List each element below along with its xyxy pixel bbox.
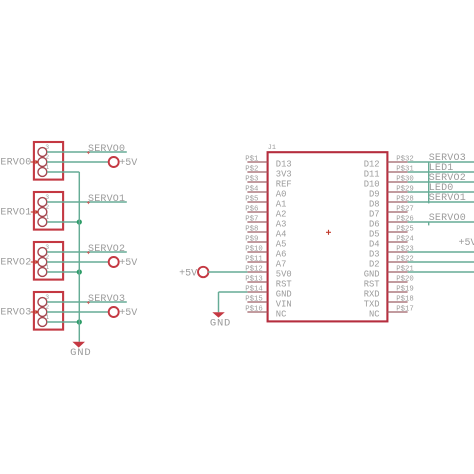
svg-text:A5: A5 [276,239,287,249]
ground symbol GND (at J1) [210,312,231,329]
svg-text:J1: J1 [268,144,276,152]
wire: short vertical segment crossing right-side nets [428,162,430,204]
wire net SERVO3 from connector pin 3 [47,301,127,303]
svg-text:P$9: P$9 [245,235,258,243]
svg-text:+5V: +5V [179,268,197,279]
svg-text:SERVO0: SERVO0 [88,144,125,155]
wire from SERVO2 pin 1 to GND bus [47,271,79,273]
svg-text:2: 2 [45,254,49,261]
wire GND to J1 pin P$14: horizontal [219,291,248,293]
svg-text:D3: D3 [369,249,380,259]
connector SERVO1 (3-pin header) [0,192,63,230]
pin P$2 (3V3) of J1, left side [245,165,291,179]
pin P$6 (A2) of J1, left side [245,205,286,219]
svg-text:+5V: +5V [119,158,137,169]
net label SERVO2 [87,244,125,255]
svg-text:A0: A0 [276,189,287,199]
pin P$24 (D4) of J1, right side [369,235,414,249]
svg-text:2: 2 [45,154,49,161]
pin P$7 (A3) of J1, left side [245,215,286,229]
svg-text:+5V: +5V [459,238,474,249]
svg-text:GND: GND [364,269,380,279]
svg-text:P$6: P$6 [245,205,258,213]
wire: small tick below SERVO0 label [428,222,430,226]
pin P$28 (D8) of J1, right side [369,195,414,209]
svg-text:RXD: RXD [364,289,380,299]
svg-text:2: 2 [45,304,49,311]
pin P$20 (RST) of J1, right side [364,275,414,289]
pin P$27 (D7) of J1, right side [369,205,414,219]
svg-text:D8: D8 [369,199,380,209]
svg-text:VIN: VIN [276,299,292,309]
pin P$18 (TXD) of J1, right side [364,295,414,309]
svg-text:SERVO0: SERVO0 [429,213,466,224]
wire from SERVO0 pin 2 to +5V [47,161,109,163]
svg-text:D10: D10 [364,179,380,189]
ground symbol GND (connector bus) [70,342,91,359]
wire net SERVO0 from connector pin 3 [47,151,127,153]
pin P$23 (D3) of J1, right side [369,245,414,259]
wire net SERVO1 from J1 right side row y=202 [408,201,474,203]
svg-text:D11: D11 [364,169,380,179]
svg-text:P$17: P$17 [396,305,414,313]
IC J1 body [268,152,388,321]
svg-text:P$13: P$13 [245,275,263,283]
svg-text:P$18: P$18 [396,295,414,303]
+5V supply symbol at SERVO2 [109,257,138,269]
svg-text:NC: NC [276,309,287,319]
svg-text:SERVO1: SERVO1 [429,193,466,204]
svg-text:SERVO3: SERVO3 [88,294,125,305]
wire net unnamed from J1 right side row y=272 [408,271,474,273]
svg-text:P$25: P$25 [396,225,414,233]
svg-text:1: 1 [45,264,49,271]
svg-text:P$12: P$12 [245,265,263,273]
svg-text:5V0: 5V0 [276,269,292,279]
wire net LED1 from J1 right side row y=172 [408,171,474,173]
wire from SERVO2 pin 2 to +5V [47,261,109,263]
svg-text:RST: RST [364,279,380,289]
pin P$5 (A1) of J1, left side [245,195,286,209]
junction on GND bus at SERVO3 pin 1 [77,319,82,324]
svg-text:P$11: P$11 [245,255,263,263]
svg-text:D9: D9 [369,189,380,199]
svg-text:P$7: P$7 [245,215,258,223]
pin P$9 (A5) of J1, left side [245,235,286,249]
pin P$14 (GND) of J1, left side [245,285,291,299]
svg-text:SERVO2: SERVO2 [0,258,31,269]
wire +5V to J1 pin P$12 (5V0) [208,271,247,273]
svg-text:TXD: TXD [364,299,380,309]
wire GND to J1 pin P$14: vertical drop [218,292,220,312]
svg-text:+5V: +5V [119,308,137,319]
junction on GND bus at SERVO2 pin 1 [77,269,82,274]
svg-text:3V3: 3V3 [276,169,292,179]
svg-text:D5: D5 [369,229,380,239]
wire net SERVO2 from connector pin 3 [47,251,127,253]
svg-text:P$2: P$2 [245,165,258,173]
svg-text:A3: A3 [276,219,287,229]
svg-text:1: 1 [45,164,49,171]
wire from SERVO0 pin 1 to GND bus [47,171,79,173]
connector SERVO0 (3-pin header) [0,142,63,180]
svg-text:D13: D13 [276,159,292,169]
svg-text:A4: A4 [276,229,287,239]
svg-text:RST: RST [276,279,292,289]
svg-text:P$3: P$3 [245,175,258,183]
pin P$26 (D6) of J1, right side [369,215,414,229]
connector SERVO2 (3-pin header) [0,242,63,280]
svg-text:P$5: P$5 [245,195,258,203]
wire net SERVO2 from J1 right side row y=182 [408,181,474,183]
svg-text:REF: REF [276,179,292,189]
svg-text:D6: D6 [369,219,380,229]
+5V supply symbol at J1 pin P$12 [179,267,208,280]
svg-text:D12: D12 [364,159,380,169]
pin P$19 (RXD) of J1, right side [364,285,414,299]
svg-text:D7: D7 [369,209,380,219]
svg-text:GND: GND [276,289,292,299]
svg-text:P$10: P$10 [245,245,263,253]
pin P$16 (NC) of J1, left side [245,305,286,319]
wire net LED0 from J1 right side row y=192 [408,191,474,193]
svg-text:3: 3 [45,194,49,201]
svg-text:SERVO3: SERVO3 [0,308,31,319]
svg-text:GND: GND [210,318,231,330]
svg-text:P$8: P$8 [245,225,258,233]
pin P$15 (VIN) of J1, left side [245,295,291,309]
pin P$11 (A7) of J1, left side [245,255,286,269]
pin P$1 (D13) of J1, left side [245,155,291,169]
origin arrow of connector SERVO2 [31,260,39,264]
svg-text:NC: NC [369,309,380,319]
wire from SERVO1 pin 1 to GND bus [47,221,79,223]
svg-text:A2: A2 [276,209,287,219]
svg-text:1: 1 [45,214,49,221]
net label SERVO1 [87,194,125,205]
wire: vertical GND bus for connectors [78,172,80,342]
pin P$4 (A0) of J1, left side [245,185,286,199]
wire net SERVO3 from J1 right side row y=162 [408,161,474,163]
svg-text:D4: D4 [369,239,380,249]
svg-text:A6: A6 [276,249,287,259]
svg-text:P$15: P$15 [245,295,263,303]
svg-text:D2: D2 [369,259,380,269]
pin P$10 (A6) of J1, left side [245,245,286,259]
+5V supply symbol at SERVO3 [109,307,138,319]
origin arrow of connector SERVO1 [31,210,39,214]
svg-text:+5V: +5V [119,258,137,269]
net label SERVO0 [87,144,125,155]
svg-text:P$4: P$4 [245,185,259,193]
pin P$31 (D11) of J1, right side [364,165,415,179]
svg-text:3: 3 [45,294,49,301]
wire net unnamed from J1 right side row y=262 [408,261,474,263]
net label SERVO3 [87,294,125,305]
+5V supply symbol at SERVO0 [109,157,138,169]
svg-text:P$1: P$1 [245,155,259,163]
pin P$30 (D10) of J1, right side [364,175,414,189]
svg-text:GND: GND [70,347,91,359]
svg-text:SERVO0: SERVO0 [0,158,31,169]
origin arrow of connector SERVO3 [31,310,39,314]
svg-text:3: 3 [45,244,49,251]
wire net unnamed from J1 right side row y=252 [408,251,474,253]
svg-text:3: 3 [45,144,49,151]
pin P$3 (REF) of J1, left side [245,175,291,189]
svg-text:SERVO2: SERVO2 [88,244,125,255]
svg-text:P$19: P$19 [396,285,414,293]
pin P$32 (D12) of J1, right side [364,155,414,169]
pin P$17 (NC) of J1, right side [369,305,414,319]
connector SERVO3 (3-pin header) [0,292,63,330]
pin P$8 (A4) of J1, left side [245,225,286,239]
wire from SERVO3 pin 2 to +5V [47,311,109,313]
svg-text:P$14: P$14 [245,285,263,293]
IC J1 origin cross [326,230,331,235]
origin arrow of connector SERVO0 [31,160,39,164]
junction on GND bus at SERVO1 pin 1 [77,219,82,224]
svg-text:P$16: P$16 [245,305,263,313]
svg-text:A1: A1 [276,199,287,209]
wire net SERVO1 from connector pin 3 [47,201,127,203]
pin P$12 (5V0) of J1, left side [245,265,291,279]
svg-text:SERVO1: SERVO1 [0,208,31,219]
pin P$21 (GND) of J1, right side [364,265,415,279]
svg-text:P$20: P$20 [396,275,414,283]
pin P$29 (D9) of J1, right side [369,185,414,199]
pin P$25 (D5) of J1, right side [369,225,414,239]
wire from SERVO3 pin 1 to GND bus [47,321,79,323]
svg-text:2: 2 [45,204,49,211]
svg-text:P$24: P$24 [396,235,414,243]
pin P$22 (D2) of J1, right side [369,255,414,269]
svg-text:SERVO1: SERVO1 [88,194,125,205]
pin P$13 (RST) of J1, left side [245,275,291,289]
svg-text:1: 1 [45,314,49,321]
svg-text:A7: A7 [276,259,287,269]
svg-text:P$27: P$27 [396,205,414,213]
wire net SERVO0 from J1 right side row y=222 [408,221,474,223]
